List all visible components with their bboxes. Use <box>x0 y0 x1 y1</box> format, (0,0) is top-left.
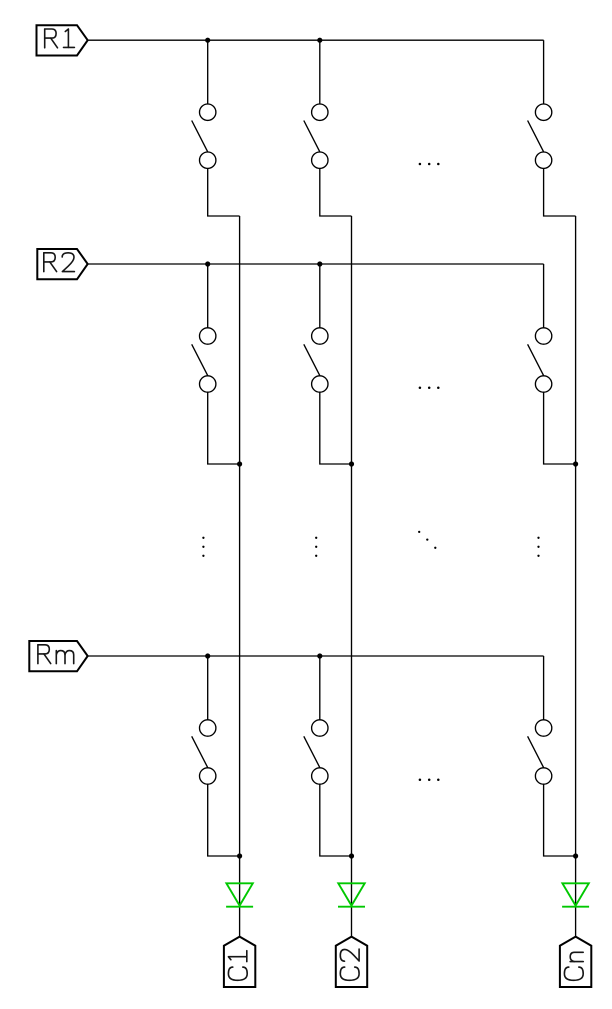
junction <box>349 461 354 466</box>
junction <box>573 461 578 466</box>
junction <box>317 261 322 266</box>
ellipsis more columns <box>419 779 422 782</box>
ellipsis more columns <box>419 387 422 390</box>
switch SW32 <box>312 720 328 736</box>
global label Cn <box>560 937 591 987</box>
wire <box>319 656 321 720</box>
junction <box>349 853 354 858</box>
wire R2 row <box>88 263 544 265</box>
wire <box>320 168 352 216</box>
junction <box>205 38 210 43</box>
ellipsis more columns <box>419 163 422 166</box>
global label R1 <box>37 25 88 55</box>
wire Rm row <box>88 655 544 657</box>
wire column bus C2 <box>351 216 353 937</box>
wire <box>208 392 240 464</box>
junction <box>573 853 578 858</box>
switch SW21 <box>200 328 216 344</box>
wire R1 row <box>88 39 544 41</box>
wire column bus Cn <box>575 216 577 937</box>
wire <box>543 264 545 328</box>
diode D3 <box>562 883 588 905</box>
wire <box>208 168 240 216</box>
diode D2 <box>338 883 364 905</box>
switch SW31 <box>200 720 216 736</box>
global label R2 <box>37 249 87 279</box>
wire <box>207 40 209 104</box>
wire <box>543 656 545 720</box>
switch SW22 <box>312 328 328 344</box>
ellipsis more rows <box>202 537 204 539</box>
switch SW23 <box>535 328 551 344</box>
ellipsis diagonal <box>418 531 420 533</box>
junction <box>237 853 242 858</box>
global label C2 <box>336 937 367 987</box>
diode D1 <box>226 883 252 905</box>
junction <box>317 38 322 43</box>
wire column bus C1 <box>239 216 241 937</box>
junction <box>237 461 242 466</box>
wire <box>544 392 576 464</box>
wire <box>543 40 545 104</box>
global label Rm <box>29 641 87 671</box>
wire <box>207 264 209 328</box>
switch SW33 <box>535 720 551 736</box>
junction <box>205 653 210 658</box>
wire <box>544 784 576 856</box>
wire <box>320 784 352 856</box>
wire <box>320 392 352 464</box>
ellipsis more rows <box>537 537 539 539</box>
switch SW13 <box>535 104 551 120</box>
wire <box>319 40 321 104</box>
wire <box>544 168 576 216</box>
junction <box>317 653 322 658</box>
wire <box>319 264 321 328</box>
switch SW11 <box>200 104 216 120</box>
wire <box>207 656 209 720</box>
wire <box>208 784 240 856</box>
junction <box>205 261 210 266</box>
global label C1 <box>224 937 255 987</box>
switch SW12 <box>312 104 328 120</box>
ellipsis more rows <box>315 537 317 539</box>
